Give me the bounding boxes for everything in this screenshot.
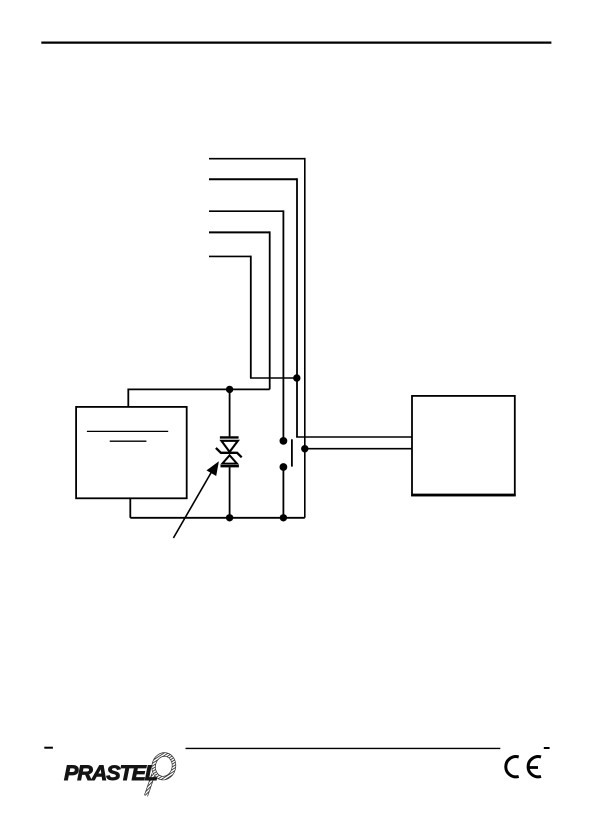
switch blade bar (291, 439, 293, 466)
annotation arrow head (207, 461, 219, 476)
suppressor bottom bar (221, 465, 239, 467)
wire W2 to motor box (296, 436, 412, 438)
junction dot suppressor top (226, 386, 233, 393)
footer left crop mark (44, 747, 53, 749)
receiver label line 1 (87, 430, 168, 432)
suppressor branch top wire (229, 389, 231, 436)
bottom bus wire (130, 517, 304, 519)
svg-text:PRASTEL: PRASTEL (64, 761, 157, 785)
motor box (412, 396, 515, 496)
CE mark letter E middle bar (529, 766, 538, 769)
suppressor middle zener bar (216, 448, 242, 457)
suppressor top triangle (221, 441, 238, 452)
junction dot W1 tap (301, 445, 308, 452)
annotation arrow shaft (173, 469, 213, 539)
junction dot W5-W2 (293, 374, 300, 381)
wire W1 tap to motor box (305, 448, 412, 450)
wire W2 vertical (296, 178, 298, 437)
PRASTEL logo P ring outer edge (149, 750, 178, 782)
wire W4 vertical (269, 231, 271, 389)
PRASTEL logo P tail (146, 774, 154, 796)
top header rule (41, 41, 551, 43)
receiver box (76, 407, 187, 498)
wire from box top to W4 (128, 389, 269, 407)
wire W5 link to W2 (250, 377, 297, 379)
wire W1 vertical (304, 158, 306, 518)
wire W5 vertical (250, 256, 252, 378)
junction dot bottom switch (280, 514, 287, 521)
receiver label line 2 (110, 440, 147, 442)
wire from box bottom (129, 498, 131, 518)
junction dot bottom suppressor (226, 514, 233, 521)
footer rule (186, 747, 501, 749)
wire W4 horizontal (209, 231, 270, 233)
wire W1 horizontal (209, 158, 305, 160)
suppressor branch bottom wire (229, 467, 231, 518)
PRASTEL logo P ring (151, 753, 176, 780)
PRASTEL logo P tail right edge (148, 775, 156, 797)
motor box bottom edge (411, 494, 516, 497)
footer right crop mark (544, 747, 550, 749)
wire W3 vertical to switch (282, 210, 284, 441)
wire W2 horizontal (209, 178, 297, 180)
PRASTEL logo P tail left edge (144, 774, 152, 796)
switch bottom contact dot (280, 463, 288, 471)
wire W5 horizontal (209, 255, 251, 257)
PRASTEL logo P ring inner edge (154, 755, 174, 778)
suppressor top bar (220, 436, 239, 438)
wire switch bottom to bus (282, 467, 284, 518)
CE mark letter E arc (528, 757, 541, 777)
CE mark letter C (506, 757, 519, 777)
suppressor bottom triangle (222, 455, 237, 463)
wire W3 horizontal (209, 210, 283, 212)
switch top contact dot (280, 437, 288, 445)
PRASTEL wordmark (64, 761, 157, 785)
